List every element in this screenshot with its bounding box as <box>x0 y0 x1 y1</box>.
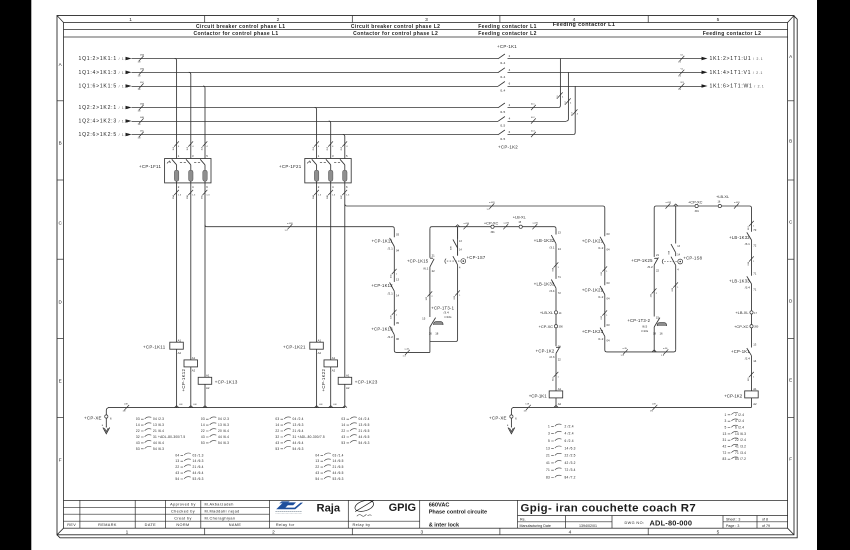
title line under Re cell <box>518 521 613 523</box>
svg-text:+CP-XC: +CP-XC <box>484 220 499 225</box>
svg-text:44 /6.5: 44 /6.5 <box>333 471 344 475</box>
svg-text:+CP-1F11: +CP-1F11 <box>139 164 161 169</box>
ladder A slash 1 <box>392 269 397 274</box>
svg-text:1N: 1N <box>138 138 141 140</box>
svg-text:A2: A2 <box>332 369 336 373</box>
crossover vertical 3 <box>573 86 575 135</box>
svg-text:Page : 3: Page : 3 <box>726 524 739 528</box>
svg-text:+LB-XL: +LB-XL <box>735 310 749 315</box>
svg-text:06A: 06A <box>312 195 315 199</box>
sheet inner frame <box>64 23 788 529</box>
svg-text:22 /2.5: 22 /2.5 <box>565 454 576 458</box>
wire 1F11 pole2 down to coil 1K12 <box>190 181 192 360</box>
svg-text:/1.2: /1.2 <box>598 295 603 299</box>
bottom column ticks <box>205 528 649 535</box>
contact on branch C <box>453 239 458 248</box>
crossover slash L4 <box>531 105 536 110</box>
svg-text:03: 03 <box>607 232 611 236</box>
svg-text:6 /2.4: 6 /2.4 <box>565 439 574 443</box>
svg-text:3: 3 <box>425 17 428 23</box>
source arrow L4 <box>126 106 132 110</box>
svg-text:/6.5: /6.5 <box>642 324 647 328</box>
header band separator line 2 <box>64 36 788 38</box>
svg-text:/3.4: /3.4 <box>745 285 750 289</box>
svg-text:22: 22 <box>558 357 562 361</box>
contact 1K2 pole 3 <box>498 130 505 135</box>
svg-text:A1: A1 <box>558 387 562 391</box>
svg-text:5: 5 <box>548 439 550 443</box>
svg-text:22: 22 <box>175 465 179 469</box>
svg-text:+LB-1K32: +LB-1K32 <box>729 235 750 240</box>
svg-text:Checked by: Checked by <box>171 510 195 514</box>
ladder F slash <box>652 288 657 293</box>
svg-text:04 /2.3: 04 /2.3 <box>218 417 229 421</box>
wire input line L3 <box>132 86 499 88</box>
svg-text:03: 03 <box>607 323 611 327</box>
terminal slash L2 <box>139 70 144 75</box>
svg-text:04: 04 <box>175 453 179 457</box>
svg-text:05B: 05B <box>187 195 189 199</box>
ladder D wire <box>555 229 557 408</box>
ladder A bottom slash <box>405 350 410 355</box>
svg-text:+CP-1K21: +CP-1K21 <box>283 344 306 349</box>
svg-text:1N: 1N <box>524 410 527 412</box>
svg-text:32: 32 <box>275 435 279 439</box>
coil 1K13 <box>198 377 212 384</box>
svg-text:+CP-XC: +CP-XC <box>734 324 749 329</box>
svg-text:53: 53 <box>201 441 205 445</box>
source arrow L5 <box>126 119 132 123</box>
svg-text:/3.4: /3.4 <box>549 289 554 293</box>
svg-text:+CP-1K23: +CP-1K23 <box>582 329 604 334</box>
right margin row letters <box>789 54 793 462</box>
control bus 2 <box>345 204 605 208</box>
svg-text:71: 71 <box>753 288 757 292</box>
svg-text:54 /6.3: 54 /6.3 <box>153 447 164 451</box>
svg-text:+CP-1S8: +CP-1S8 <box>683 256 702 261</box>
svg-text:71: 71 <box>558 275 562 279</box>
svg-text:A1: A1 <box>206 374 210 378</box>
crossover vertical 1 <box>558 59 560 108</box>
svg-text:22: 22 <box>432 269 436 273</box>
svg-text:53: 53 <box>341 441 345 445</box>
coil 1K11 <box>170 342 184 349</box>
ladder D slash 1 <box>554 262 559 267</box>
svg-text:B: B <box>789 139 792 144</box>
title block verticals <box>80 500 757 528</box>
svg-text:REMARK: REMARK <box>98 523 117 527</box>
svg-text:03 /1.4: 03 /1.4 <box>333 453 344 457</box>
svg-text:+CP-1K15: +CP-1K15 <box>407 258 429 263</box>
svg-text:41 /3.2: 41 /3.2 <box>735 445 746 449</box>
svg-text:54: 54 <box>315 477 319 481</box>
svg-text:391: 391 <box>491 231 496 234</box>
svg-text:18: 18 <box>653 332 657 336</box>
breaker box 1F11 <box>139 154 211 189</box>
svg-text:a-031: a-031 <box>533 223 539 225</box>
svg-text:1: 1 <box>725 413 727 417</box>
svg-text:DATE: DATE <box>145 523 157 527</box>
contact 1K1 pole 1 <box>498 54 505 59</box>
terminal slash L1 <box>139 56 144 61</box>
svg-text:72: 72 <box>753 243 757 247</box>
svg-text:+CP-1K2: +CP-1K2 <box>536 348 555 353</box>
svg-text:05: 05 <box>396 321 400 325</box>
branch G wire 1S8 <box>675 206 677 350</box>
svg-text:a-030: a-030 <box>504 223 510 225</box>
tap vertical L6 to 1F21 <box>343 135 345 159</box>
svg-text:A2: A2 <box>192 369 196 373</box>
svg-text:390: 390 <box>559 326 564 329</box>
svg-text:43: 43 <box>341 435 345 439</box>
svg-text:21 /6.4: 21 /6.4 <box>293 429 304 433</box>
svg-text:t=10s: t=10s <box>641 329 649 333</box>
svg-text:A1: A1 <box>332 356 336 360</box>
title block row line 2 <box>64 506 270 508</box>
svg-text:53: 53 <box>275 447 279 451</box>
svg-text:03: 03 <box>341 417 345 421</box>
svg-text:1: 1 <box>129 17 132 23</box>
svg-text:2 /2.4: 2 /2.4 <box>735 413 744 417</box>
svg-text:1N: 1N <box>138 111 141 113</box>
svg-text:NAME: NAME <box>229 523 242 527</box>
svg-text:Phase control circuite: Phase control circuite <box>429 510 487 516</box>
svg-text:/3.1: /3.1 <box>549 245 554 249</box>
svg-text:13: 13 <box>546 446 550 450</box>
svg-text:a-35: a-35 <box>623 348 628 350</box>
output arrow L3 <box>702 84 708 88</box>
svg-text:04 /2.3: 04 /2.3 <box>153 417 164 421</box>
svg-text:a-030: a-030 <box>464 223 470 225</box>
output arrow L1 <box>702 57 708 61</box>
Raja logo blue train glyph <box>276 501 304 513</box>
svg-text:71 /3.4: 71 /3.4 <box>735 451 746 455</box>
svg-text:1N: 1N <box>138 62 141 64</box>
wire input line L5 <box>132 121 499 123</box>
coil 1K23 <box>338 377 352 384</box>
svg-text:Relay by: Relay by <box>353 523 371 527</box>
svg-text:1394/02/01: 1394/02/01 <box>579 524 597 528</box>
svg-text:/1.2: /1.2 <box>598 246 603 250</box>
svg-text:06B: 06B <box>327 195 329 199</box>
wire input line L2 <box>132 72 499 74</box>
svg-text:43: 43 <box>275 441 279 445</box>
svg-text:+CP-XE: +CP-XE <box>489 415 507 420</box>
bus slash terminal <box>124 405 129 410</box>
svg-text:72: 72 <box>723 451 727 455</box>
output slash L1 <box>680 56 685 61</box>
svg-text:20 /6.4: 20 /6.4 <box>218 429 229 433</box>
table 1K22 contact mirror <box>341 417 369 445</box>
svg-text:+CP-1K13: +CP-1K13 <box>371 327 393 332</box>
svg-text:REV: REV <box>67 523 76 527</box>
title block row line 4 <box>64 520 420 522</box>
svg-text:of 79: of 79 <box>762 524 770 528</box>
ladder F wire <box>653 208 655 352</box>
left margin row letters <box>59 62 63 463</box>
title line under big title <box>518 515 788 517</box>
contact on branch G <box>671 244 676 253</box>
svg-text:72: 72 <box>558 291 562 295</box>
right margin row ticks <box>788 101 794 418</box>
earth terminal XE left <box>106 408 108 415</box>
svg-text:6 /2.4: 6 /2.4 <box>735 426 744 430</box>
svg-text:A1: A1 <box>192 356 196 360</box>
svg-text:84 /7.2: 84 /7.2 <box>565 476 576 480</box>
wire input line L4 <box>132 107 499 109</box>
svg-text:3: 3 <box>725 419 727 423</box>
table 1K13 contact mirror <box>175 453 203 481</box>
GPIG oval logo <box>354 498 375 516</box>
corner diagonal bottom-right <box>788 528 794 535</box>
svg-text:Sheet : 3: Sheet : 3 <box>726 518 740 522</box>
svg-text:Re.: Re. <box>520 517 526 521</box>
svg-text:/2.1: /2.1 <box>388 247 393 251</box>
svg-text:05C: 05C <box>201 195 203 199</box>
crossover vertical 2 <box>566 72 568 121</box>
svg-text:31: 31 <box>723 438 727 442</box>
svg-text:2: 2 <box>277 17 280 23</box>
svg-text:22: 22 <box>315 465 319 469</box>
bus4 tap 1S8 branch <box>674 204 678 206</box>
coil 1K12 <box>184 360 198 367</box>
tap vertical L2 to 1F11 <box>189 72 191 158</box>
svg-text:22: 22 <box>341 429 345 433</box>
contact 1K1 pole 3 <box>498 82 505 87</box>
svg-text:05B: 05B <box>140 68 144 70</box>
svg-text:/2.3: /2.3 <box>549 355 554 359</box>
svg-text:M.Akbarzadeh: M.Akbarzadeh <box>205 503 234 507</box>
corner diagonal top-left <box>57 16 64 23</box>
svg-text:4 /2.4: 4 /2.4 <box>735 419 744 423</box>
svg-text:A1: A1 <box>178 338 182 342</box>
svg-text:+CP-1K22: +CP-1K22 <box>321 368 326 391</box>
wire 1F21 pole3 down to coil 1K23 <box>344 181 346 377</box>
table 1K2 contact mirror <box>723 413 747 462</box>
output slash L3 <box>680 83 685 88</box>
svg-text:1: 1 <box>126 530 129 536</box>
svg-text:Feeding contactor L2: Feeding contactor L2 <box>703 31 762 37</box>
ladder H wire <box>751 208 753 407</box>
svg-text:44 /6.4: 44 /6.4 <box>293 441 304 445</box>
svg-text:53: 53 <box>136 447 140 451</box>
svg-text:+CP-1K11: +CP-1K11 <box>143 344 166 349</box>
ladder H slash 3 <box>749 372 754 377</box>
svg-text:22: 22 <box>656 268 660 272</box>
svg-text:16: 16 <box>660 332 664 336</box>
terminal slash L5 <box>139 118 144 123</box>
svg-text:54 /6.3: 54 /6.3 <box>293 447 304 451</box>
bus3 tap 1S7 branch <box>455 225 459 227</box>
svg-text:1N: 1N <box>650 410 653 412</box>
wire input line L6 <box>132 134 499 136</box>
svg-text:B: B <box>59 141 62 146</box>
svg-text:21: 21 <box>432 253 436 257</box>
tap vertical L5 to 1F21 <box>329 121 331 159</box>
table 1K11 contact mirror <box>136 417 186 451</box>
svg-text:A1: A1 <box>753 387 757 391</box>
svg-text:A1: A1 <box>346 374 350 378</box>
svg-text:06C: 06C <box>341 195 343 199</box>
svg-text:73: 73 <box>753 228 757 232</box>
svg-text:a-033: a-033 <box>734 202 740 204</box>
svg-text:21 /6.5: 21 /6.5 <box>333 465 344 469</box>
svg-text:Gpig- iran couchette coach R7: Gpig- iran couchette coach R7 <box>521 503 697 515</box>
svg-text:Raja: Raja <box>317 502 341 514</box>
svg-text:+LB-1K32: +LB-1K32 <box>534 238 555 243</box>
title line between sheet and page <box>723 521 788 523</box>
svg-text:84 /7.2: 84 /7.2 <box>735 457 746 461</box>
svg-text:42 /3.2: 42 /3.2 <box>565 461 576 465</box>
svg-text:44 /6.4: 44 /6.4 <box>218 435 229 439</box>
svg-text:Manufacturing Date: Manufacturing Date <box>520 524 551 528</box>
svg-text:14: 14 <box>275 423 279 427</box>
crossover slash L5 <box>531 118 536 123</box>
svg-text:21 /6.4: 21 /6.4 <box>193 465 204 469</box>
svg-text:04: 04 <box>396 249 400 253</box>
bottom-left coil return bus <box>108 407 345 409</box>
svg-text:04: 04 <box>607 297 611 301</box>
title block top line <box>64 499 788 501</box>
svg-text:04: 04 <box>607 339 611 343</box>
svg-text:22 /2.4: 22 /2.4 <box>735 438 746 442</box>
svg-text:+CP-1K23: +CP-1K23 <box>355 379 378 384</box>
svg-text:04 /2.4: 04 /2.4 <box>293 417 304 421</box>
ladder B slash <box>427 291 432 296</box>
svg-text:13: 13 <box>396 277 400 281</box>
wire 1F11 pole1 down to coil 1K11 <box>176 181 178 342</box>
svg-text:/1.4: /1.4 <box>500 89 505 93</box>
table 1K23 contact mirror <box>315 453 343 481</box>
branch G slash <box>673 282 678 287</box>
svg-text:+LB-XL: +LB-XL <box>716 194 730 199</box>
left margin row ticks <box>57 101 64 418</box>
svg-text:13 /6.5: 13 /6.5 <box>359 423 370 427</box>
svg-text:1N: 1N <box>123 411 126 413</box>
ladder E slash 1 <box>602 266 607 271</box>
svg-text:53 /6.3: 53 /6.3 <box>333 477 344 481</box>
svg-text:44 /6.5: 44 /6.5 <box>359 435 370 439</box>
ladder A wire <box>394 229 430 353</box>
svg-text:72 /3.4: 72 /3.4 <box>565 468 576 472</box>
svg-text:Creat by: Creat by <box>174 516 192 520</box>
svg-text:a-028: a-028 <box>287 223 293 225</box>
svg-text:Circuit breaker control phase: Circuit breaker control phase L2 <box>351 24 441 30</box>
svg-text:1N: 1N <box>138 124 141 126</box>
terminal slash L6 <box>139 132 144 137</box>
svg-text:E: E <box>789 378 792 383</box>
wire 1F21 pole2 down to coil 1K22 <box>330 181 332 360</box>
svg-text:1N: 1N <box>678 62 681 64</box>
svg-text:03: 03 <box>275 417 279 421</box>
svg-text:Contactor for control phase L2: Contactor for control phase L2 <box>353 31 438 37</box>
tap vertical L3 to 1F11 <box>203 86 205 159</box>
svg-text:5: 5 <box>725 426 727 430</box>
svg-text:+LB-XL: +LB-XL <box>513 215 527 220</box>
svg-text:/2.2: /2.2 <box>388 335 393 339</box>
svg-text:13: 13 <box>175 459 179 463</box>
svg-text:03 /1.3: 03 /1.3 <box>193 453 204 457</box>
svg-text:21: 21 <box>656 253 660 257</box>
svg-text:22: 22 <box>136 429 140 433</box>
plug CP-XC on bus4 <box>695 204 698 207</box>
breaker box 1F21 <box>279 154 351 189</box>
svg-text:4: 4 <box>569 530 572 536</box>
svg-text:14: 14 <box>341 423 345 427</box>
plug LB-XL on bus3 <box>519 225 522 228</box>
svg-text:+CP-1K2: +CP-1K2 <box>724 393 742 398</box>
plug LB-XL on bus4 <box>718 204 721 207</box>
svg-text:21 /6.4: 21 /6.4 <box>153 429 164 433</box>
black film border right <box>817 0 850 550</box>
svg-text:13 /6.3: 13 /6.3 <box>153 423 164 427</box>
svg-text:/6.2: /6.2 <box>648 265 653 269</box>
pushbutton CP-1S8 <box>671 257 676 266</box>
svg-text:21: 21 <box>546 454 550 458</box>
svg-text:A2: A2 <box>178 351 182 355</box>
svg-text:3: 3 <box>420 530 423 536</box>
svg-text:/1.4: /1.4 <box>500 75 505 79</box>
source arrow L3 <box>126 84 132 88</box>
contact 1K2 pole 2 <box>498 117 505 122</box>
svg-text:a-029: a-029 <box>489 202 495 204</box>
ladder E slash 2 <box>602 310 607 315</box>
branch C wire 1S7 <box>430 227 458 342</box>
svg-text:83: 83 <box>546 476 550 480</box>
plug CP-XC on ladder D <box>554 325 557 328</box>
svg-text:390: 390 <box>754 326 759 329</box>
svg-text:+CP-1K11: +CP-1K11 <box>372 239 394 244</box>
svg-text:03: 03 <box>607 281 611 285</box>
svg-text:a-34: a-34 <box>405 349 410 351</box>
svg-text:391: 391 <box>695 210 700 213</box>
svg-text:03: 03 <box>201 417 205 421</box>
bottom column numbers <box>126 530 720 536</box>
svg-text:06: 06 <box>396 337 400 341</box>
svg-text:05C: 05C <box>140 82 144 84</box>
svg-text:A2: A2 <box>558 402 562 406</box>
svg-text:44 /6.4: 44 /6.4 <box>193 471 204 475</box>
svg-text:Circuit breaker control phase: Circuit breaker control phase L1 <box>196 24 286 30</box>
svg-text:+CP-1K22: +CP-1K22 <box>582 287 604 292</box>
top column numbers <box>129 17 719 23</box>
svg-text:A2: A2 <box>206 386 210 390</box>
svg-text:GPIG: GPIG <box>389 502 417 514</box>
svg-text:/1.5: /1.5 <box>500 124 505 128</box>
svg-text:54 /6.3: 54 /6.3 <box>218 441 229 445</box>
svg-text:/6.1: /6.1 <box>423 266 428 270</box>
svg-text:Feeding contactor L2: Feeding contactor L2 <box>478 31 537 37</box>
svg-text:2 /2.4: 2 /2.4 <box>565 424 574 428</box>
svg-text:13: 13 <box>753 343 757 347</box>
svg-text:43: 43 <box>201 435 205 439</box>
svg-text:14: 14 <box>558 247 562 251</box>
plug CP-XC on bus3 <box>491 225 494 228</box>
svg-text:Feeding contactor L1: Feeding contactor L1 <box>478 24 537 30</box>
svg-text:15: 15 <box>422 317 426 321</box>
svg-text:13: 13 <box>723 432 727 436</box>
control bus 1 <box>205 225 394 229</box>
svg-text:41: 41 <box>546 461 550 465</box>
svg-text:a-36: a-36 <box>663 348 668 350</box>
ladder H slash 1 <box>749 221 754 226</box>
header band separator line 1 <box>64 29 788 31</box>
contact 1K2 pole 1 <box>498 103 505 108</box>
source arrow L1 <box>126 57 132 61</box>
table 1K12 contact mirror <box>201 417 229 445</box>
earth terminal XE right <box>511 407 513 415</box>
svg-text:03: 03 <box>136 417 140 421</box>
